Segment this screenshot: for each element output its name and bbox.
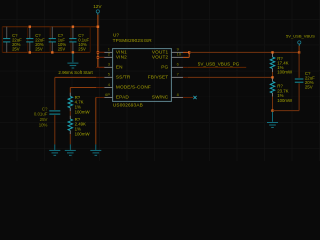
svg-text:25V: 25V [12, 46, 20, 51]
wire SS/TR net [55, 77, 96, 110]
svg-text:100mW: 100mW [277, 69, 293, 74]
junction divider top [271, 51, 273, 53]
op-amp U1 body (TPSM82902 module) [113, 49, 172, 102]
wire pin10 up-connector [183, 52, 189, 57]
svg-text:SW/NC: SW/NC [152, 95, 169, 100]
pin 1 VIN1 [96, 47, 127, 55]
svg-text:100mW: 100mW [277, 98, 293, 103]
svg-text:C?: C? [42, 106, 48, 111]
svg-text:100mW: 100mW [75, 131, 91, 136]
resistor R3 4.7K [68, 93, 72, 112]
power 12V stub [97, 13, 99, 14]
wire R4 to ground [69, 134, 71, 144]
power 5V_USB_VBUS circle symbol [298, 41, 301, 44]
svg-text:12V: 12V [93, 4, 102, 9]
svg-text:23.7K: 23.7K [277, 88, 288, 93]
svg-text:10%: 10% [39, 123, 48, 128]
resistor R2 23.7K [270, 78, 274, 110]
ground GND5 below divider [267, 112, 278, 128]
svg-text:2.96ms Soft Start: 2.96ms Soft Start [58, 70, 93, 75]
svg-text:1%: 1% [277, 93, 283, 98]
resistor R2 value label [277, 84, 293, 103]
wire VIN2 stub [98, 56, 105, 58]
svg-text:VIN2: VIN2 [116, 55, 127, 60]
svg-text:R?: R? [75, 117, 81, 122]
capacitor C2 [26, 27, 33, 53]
svg-text:5V_USB_VBUS_PG: 5V_USB_VBUS_PG [198, 61, 240, 66]
svg-text:MODE/S-CONF: MODE/S-CONF [116, 85, 151, 90]
svg-text:5V_USB_VBUS: 5V_USB_VBUS [286, 33, 315, 38]
power 12V circle symbol [96, 10, 99, 13]
capacitor C6 soft-start 0.01uF [49, 111, 60, 144]
pin 3 EN [96, 62, 123, 70]
junction output node [298, 51, 300, 53]
no-connect X on pin 8 SW/NC [193, 96, 196, 99]
svg-text:25V: 25V [40, 117, 48, 122]
pin 6P EPAD [96, 92, 129, 100]
pin 10 VOUT2 [152, 52, 187, 60]
svg-text:PG: PG [161, 65, 168, 70]
ground GND1 below cap bank [67, 53, 78, 68]
capacitor C1 [3, 27, 10, 53]
capacitor C3 value label [58, 33, 67, 52]
wire FB net [188, 76, 273, 78]
svg-text:0.01uF: 0.01uF [34, 112, 48, 117]
svg-text:25V: 25V [58, 46, 66, 51]
svg-text:100mW: 100mW [75, 109, 91, 114]
cap bank selection box columns [2, 27, 90, 53]
wire EPAD to ground [95, 98, 98, 145]
wire VOUT rail to output [189, 51, 299, 53]
wire between R3 and R4 [69, 111, 71, 116]
svg-text:1%: 1% [75, 127, 81, 132]
capacitor C6 value label [34, 106, 48, 127]
svg-text:VOUT1: VOUT1 [152, 50, 169, 55]
junction 12V rail [97, 26, 99, 28]
wire 12V vertical rail [97, 15, 99, 68]
svg-text:1%: 1% [75, 105, 81, 110]
pin 7 FB/VSET [148, 72, 188, 80]
svg-text:6P: 6P [105, 92, 110, 97]
pin 9 VOUT1 [152, 47, 189, 55]
svg-text:SS/TR: SS/TR [116, 75, 131, 80]
svg-text:U?: U? [113, 32, 119, 37]
svg-text:EN: EN [116, 65, 123, 70]
resistor R1 value label [277, 56, 293, 74]
svg-text:25V: 25V [78, 46, 86, 51]
svg-text:R?: R? [277, 84, 283, 89]
capacitor C3 [49, 27, 56, 53]
wire MODE/S-CONF net [70, 88, 96, 93]
junction dots on buses [29, 26, 100, 54]
capacitor C4 value label [78, 33, 89, 52]
svg-text:10: 10 [177, 52, 182, 57]
resistor R3 value label [75, 95, 91, 114]
svg-text:25V: 25V [35, 46, 43, 51]
capacitor C4 [69, 27, 76, 53]
wire 12V top bus [2, 26, 98, 28]
svg-text:25V: 25V [305, 84, 313, 89]
svg-text:VOUT2: VOUT2 [152, 55, 169, 60]
capacitor C5 output 22uF [295, 52, 304, 110]
resistor R4 2.49K [68, 116, 72, 134]
svg-text:2.49K: 2.49K [75, 122, 86, 127]
wire pin9 to junction [183, 51, 189, 53]
junction VIN2 [97, 56, 99, 58]
pin 6 PG [161, 62, 188, 70]
capacitor C1 value label [12, 33, 22, 52]
junction VOUT [188, 51, 190, 53]
junction VIN1 [97, 51, 99, 53]
svg-text:4.7K: 4.7K [75, 100, 84, 105]
capacitor C5 value label [305, 71, 315, 90]
svg-text:EPAD: EPAD [116, 95, 129, 100]
wire VIN1 stub [98, 51, 105, 53]
power 5V stub [298, 44, 300, 45]
capacitor C2 value label [35, 33, 45, 52]
junction divider bottom [271, 109, 273, 111]
wire bottom return [273, 110, 300, 112]
resistor R4 value label [75, 117, 91, 136]
wire 5V drop [298, 46, 300, 53]
ground GND4 below EPAD [90, 144, 101, 155]
wire EN stub [98, 66, 105, 68]
pin 2 VIN2 [96, 52, 127, 60]
svg-text:VIN1: VIN1 [116, 50, 127, 55]
svg-text:FB/VSET: FB/VSET [148, 75, 169, 80]
resistor R1 17.4K [270, 54, 274, 78]
pin 4 MODE/S-CONF [96, 82, 151, 90]
pin 8 SW/NC [152, 92, 193, 100]
ground GND2 below soft-start cap [49, 144, 60, 155]
wire GND bottom bus [2, 51, 90, 53]
pin 5 SS/TR [96, 72, 131, 80]
junction FB node [271, 76, 273, 78]
svg-text:US002693AB: US002693AB [113, 102, 143, 107]
svg-text:TPSM82902SISR: TPSM82902SISR [113, 38, 153, 43]
ground GND3 below mode resistors [65, 144, 76, 155]
wire PG net [188, 66, 246, 68]
svg-text:R?: R? [75, 95, 81, 100]
